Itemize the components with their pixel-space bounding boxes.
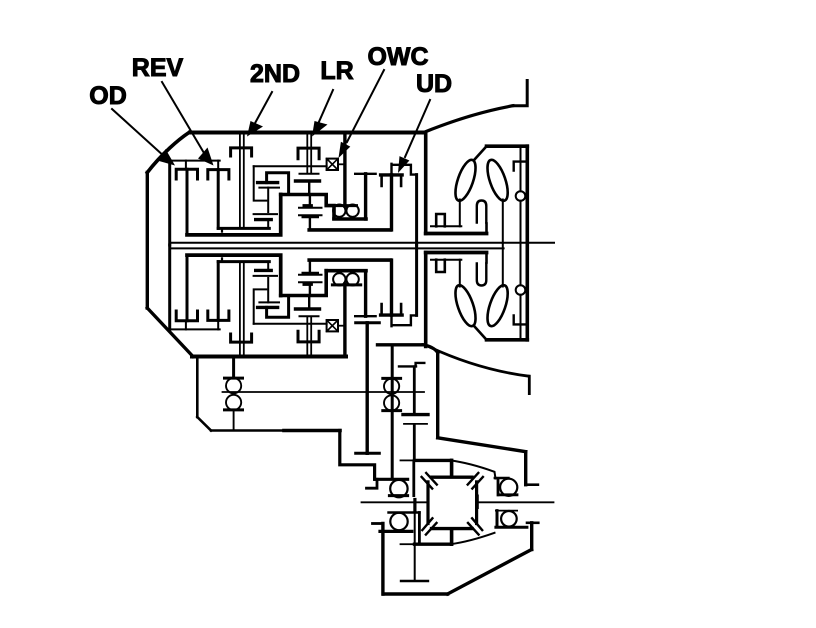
diff case top curve — [451, 460, 496, 478]
owc inner race top — [334, 204, 357, 207]
owc cage bottom top — [334, 217, 366, 221]
svg-text:REV: REV — [132, 54, 184, 82]
torque converter mirrored bottom half — [426, 243, 528, 340]
diff bearing right top bracket — [498, 479, 517, 496]
case top-left chamfer — [147, 133, 189, 173]
lower case step chamfer — [423, 345, 438, 353]
diff case bottom cap thin — [401, 543, 415, 545]
diff bearing pocket right wall — [412, 461, 415, 496]
case top line — [190, 131, 426, 135]
svg-text:LR: LR — [320, 57, 353, 85]
input shaft lines — [170, 242, 554, 244]
diff bearing left bottom foot — [373, 522, 383, 525]
case left wall — [146, 173, 149, 309]
differential case right — [475, 482, 478, 524]
lower case step line — [378, 343, 424, 346]
diff housing bottom — [383, 592, 447, 595]
diff housing bottom left wall — [381, 524, 384, 595]
diff bearing right bottom bracket — [496, 510, 517, 512]
arrow OD — [112, 109, 175, 166]
diff case bottom link — [450, 530, 454, 545]
axle end cap — [401, 580, 428, 582]
diff bearing left lower cap — [389, 511, 420, 514]
differential case bottom — [432, 527, 473, 530]
bell housing bottom tick — [528, 376, 531, 393]
diff case top link — [450, 460, 454, 476]
bell housing top curve — [423, 106, 513, 133]
pinion gear shaft — [413, 367, 416, 413]
diff housing left wall — [436, 353, 439, 438]
diff bearing right top ball — [500, 479, 517, 496]
diff bearing left bottom cap — [380, 530, 412, 533]
diff case top cap thin — [401, 459, 415, 461]
bevel gear marks top-left — [422, 473, 437, 489]
diff bearing left mid cap — [389, 494, 407, 497]
lower case left wall — [196, 357, 199, 417]
diff bearing left top cap — [375, 478, 407, 481]
diff bearing right bottom ball — [501, 511, 517, 527]
diff bearing left bottom ball — [390, 513, 407, 530]
bearing right caps — [383, 378, 401, 410]
arrow UD — [398, 100, 430, 173]
diff bearing left top ball — [390, 480, 407, 497]
diff housing right wall — [524, 452, 527, 485]
pinion gear cap — [399, 363, 424, 367]
counter shaft axis — [223, 391, 425, 393]
output gear — [366, 323, 369, 454]
svg-text:UD: UD — [416, 70, 452, 98]
diff housing bottom diagonal — [448, 550, 532, 595]
bell housing top hook — [513, 81, 527, 106]
bearing right balls — [384, 379, 399, 394]
diff bearing right top seat — [495, 477, 509, 479]
gearbox internals mirrored bottom half — [170, 245, 417, 357]
bevel gear marks bottom-left — [422, 518, 436, 534]
diff housing bottom right wall — [530, 523, 533, 550]
case right wall lower — [424, 253, 428, 347]
gearbox internals top half — [170, 133, 417, 245]
case bottom-left chamfer — [147, 308, 193, 357]
carrier link bottom — [281, 271, 327, 296]
pinion lower shaft — [413, 425, 416, 461]
torque converter top half — [426, 146, 528, 243]
owc cage top bottom — [326, 269, 366, 273]
diff case top cap — [415, 459, 451, 462]
lower case chamfer — [197, 417, 211, 431]
carrier link top — [281, 195, 334, 219]
differential case top — [432, 476, 473, 479]
diff bearing left foot — [367, 479, 378, 488]
arrow REV — [162, 82, 214, 166]
owc inner race bottom — [332, 283, 360, 286]
bearing left caps — [225, 378, 243, 410]
diff case bottom cap — [415, 543, 451, 546]
svg-text:OWC: OWC — [367, 43, 428, 71]
axle shaft lower — [414, 511, 416, 582]
bevel gear marks bottom-right — [468, 518, 482, 534]
final drive shaft — [391, 346, 394, 478]
diff case bottom curve — [451, 533, 495, 544]
bell housing bottom curve — [430, 347, 529, 376]
arrow OWC — [339, 70, 385, 158]
arrow 2ND — [247, 92, 272, 137]
lower housing to diff — [340, 431, 375, 480]
svg-text:OD: OD — [89, 82, 127, 110]
axle left tick — [413, 500, 416, 511]
bearing left stem upper — [232, 357, 235, 378]
bearing left balls — [226, 378, 241, 393]
arrow LR — [312, 90, 333, 137]
diff housing right foot — [528, 483, 538, 486]
differential case left — [426, 482, 429, 524]
axle hub tick — [476, 496, 479, 508]
case bottom line — [192, 355, 346, 359]
diff housing bottom right foot — [527, 521, 538, 524]
final mesh — [403, 413, 428, 416]
svg-text:2ND: 2ND — [250, 60, 300, 88]
case right wall upper — [424, 133, 428, 234]
axle line right — [478, 501, 554, 503]
axle line left — [362, 501, 429, 503]
lower case bottom — [211, 429, 284, 431]
bearing left stem lower — [233, 410, 235, 431]
bevel gear marks top-right — [468, 473, 483, 489]
diff housing top diagonal — [438, 438, 526, 452]
